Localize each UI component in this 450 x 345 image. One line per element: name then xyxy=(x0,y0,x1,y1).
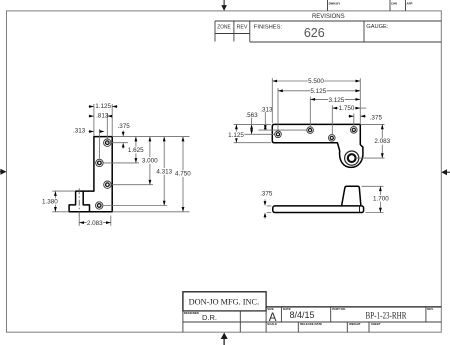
hole H2 xyxy=(96,159,103,166)
hole H1 xyxy=(104,139,111,146)
plan extension lines xyxy=(234,78,385,158)
dim 1.750 xyxy=(332,105,366,112)
svg-text:REV: REV xyxy=(237,25,249,31)
svg-text:.563: .563 xyxy=(245,112,258,119)
svg-text:PART NO.: PART NO. xyxy=(332,307,346,311)
svg-text:WEIGHT: WEIGHT xyxy=(349,322,361,326)
svg-text:BP-1-23-RHR: BP-1-23-RHR xyxy=(366,310,407,320)
svg-text:4.750: 4.750 xyxy=(175,171,191,178)
left view outline xyxy=(69,137,112,212)
svg-text:3.000: 3.000 xyxy=(142,157,158,164)
dim 4.750 xyxy=(175,137,191,212)
dim 5.500 xyxy=(272,78,360,85)
svg-text:8/4/15: 8/4/15 xyxy=(289,310,314,320)
svg-text:2.083: 2.083 xyxy=(87,220,103,227)
title block: cell labels and values xyxy=(184,307,434,326)
revisions header strip cut at top xyxy=(328,0,413,11)
side view boss xyxy=(342,186,361,206)
revisions zone/rev/finishes/gauge row xyxy=(215,21,441,42)
dim 1.125 plan xyxy=(228,124,244,142)
left view notch xyxy=(83,191,89,212)
svg-text:1.625: 1.625 xyxy=(128,147,144,154)
dim 1.125 top xyxy=(89,103,118,110)
dim .313 plan xyxy=(260,107,273,131)
svg-text:D.R.: D.R. xyxy=(202,313,217,322)
svg-text:.375: .375 xyxy=(117,123,130,130)
svg-text:.375: .375 xyxy=(370,115,383,122)
plan hole B xyxy=(307,127,314,134)
svg-text:RELEASE DATE: RELEASE DATE xyxy=(300,322,322,326)
svg-text:SHEET: SHEET xyxy=(371,322,381,326)
svg-text:.375: .375 xyxy=(260,190,273,197)
svg-text:5.125: 5.125 xyxy=(310,88,326,95)
svg-text:ZONE: ZONE xyxy=(217,25,231,31)
svg-text:1.700: 1.700 xyxy=(373,195,389,202)
side view plate xyxy=(273,206,364,213)
svg-text:DWN BY: DWN BY xyxy=(329,2,341,6)
plan hole C xyxy=(329,135,336,142)
svg-text:1.125: 1.125 xyxy=(228,132,244,139)
title block: grid lines xyxy=(183,292,441,332)
svg-text:SCALE: SCALE xyxy=(267,322,277,326)
svg-text:APP: APP xyxy=(407,2,413,6)
dim .375 left view xyxy=(117,123,130,149)
svg-text:5.500: 5.500 xyxy=(308,78,324,85)
svg-text:1.125: 1.125 xyxy=(95,103,111,110)
svg-text:1.380: 1.380 xyxy=(42,199,58,206)
plan hole A xyxy=(275,131,282,138)
svg-text:626: 626 xyxy=(304,26,325,40)
svg-text:DON-JO MFG. INC.: DON-JO MFG. INC. xyxy=(189,297,260,306)
svg-text:.313: .313 xyxy=(260,107,273,114)
hole H3 xyxy=(104,181,111,188)
centerline xyxy=(78,188,80,216)
revisions title band xyxy=(215,14,441,21)
dim 2.083 plan xyxy=(374,124,391,158)
dim 1.700 side xyxy=(362,186,390,212)
dim .563 plan xyxy=(245,112,258,134)
dim .813 xyxy=(89,113,113,120)
dim 1.380 xyxy=(42,191,58,212)
plan hole D xyxy=(351,127,358,134)
extension lines left view xyxy=(52,104,189,226)
fold mark top xyxy=(221,0,227,11)
dim 5.125 xyxy=(278,88,360,96)
svg-text:FINISHES:: FINISHES: xyxy=(254,24,283,30)
svg-text:GAUGE:: GAUGE: xyxy=(366,24,389,30)
svg-text:DESIGNED: DESIGNED xyxy=(184,311,199,315)
svg-text:3.125: 3.125 xyxy=(329,97,345,104)
plan view outline xyxy=(272,124,363,167)
svg-text:CHK: CHK xyxy=(391,2,398,6)
dim 1.625 xyxy=(128,137,144,163)
dim .375 side xyxy=(260,190,273,219)
svg-text:2.083: 2.083 xyxy=(374,138,390,145)
dim 3.000 xyxy=(142,137,158,185)
svg-text:REVISIONS: REVISIONS xyxy=(312,14,345,20)
fold mark left xyxy=(0,169,7,175)
dim 4.313 xyxy=(156,137,172,206)
fold mark bottom xyxy=(221,333,228,345)
title block: company box xyxy=(183,292,266,311)
dim .375 plan xyxy=(348,115,382,122)
svg-text:.813: .813 xyxy=(96,113,109,120)
dim 3.125 xyxy=(310,96,360,104)
side view knuckle edge line xyxy=(359,206,361,213)
svg-text:REV: REV xyxy=(427,307,433,311)
dim .313 left view xyxy=(73,127,105,134)
fold mark right xyxy=(441,169,450,175)
svg-text:4.313: 4.313 xyxy=(156,169,172,176)
dim 2.083 left view xyxy=(79,219,111,227)
hole H4 xyxy=(96,202,103,209)
knuckle hole xyxy=(345,151,359,165)
svg-text:SIZE: SIZE xyxy=(267,307,273,311)
svg-text:.313: .313 xyxy=(73,127,86,134)
svg-text:1.750: 1.750 xyxy=(339,105,355,112)
